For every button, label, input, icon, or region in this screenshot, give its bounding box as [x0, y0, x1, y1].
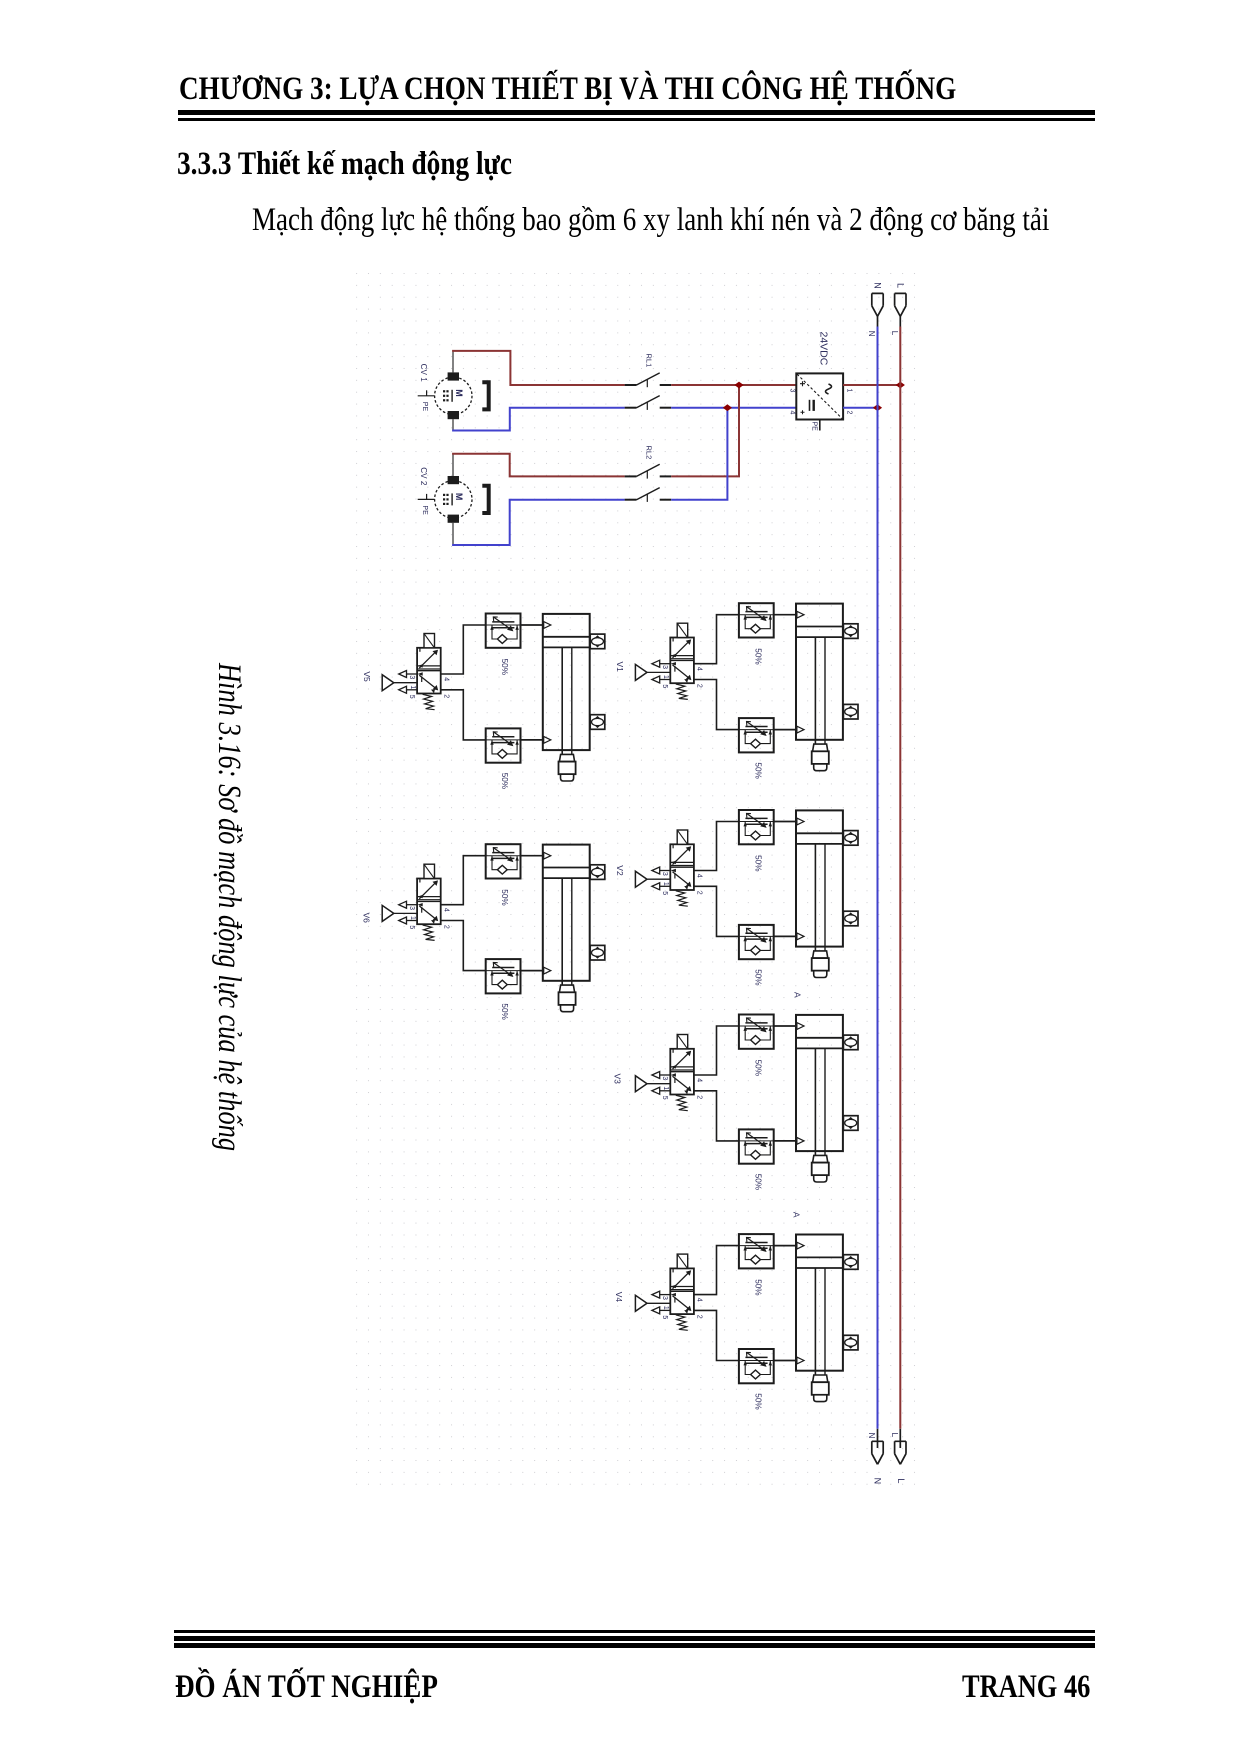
svg-text:PE: PE [811, 422, 818, 432]
svg-text:CV 1: CV 1 [419, 364, 428, 383]
terminal L bottom [895, 1441, 906, 1464]
svg-text:V2: V2 [615, 865, 625, 876]
svg-text:A: A [793, 992, 803, 998]
svg-text:N: N [867, 1433, 876, 1439]
svg-text:A: A [792, 1212, 802, 1218]
power supply PE pin [819, 420, 821, 431]
N rail wire (blue) [877, 316, 879, 326]
pneumatic group V5: 5/2 valve, flow controls, cylinder [382, 614, 605, 790]
motor CV2 PE lead [418, 498, 435, 500]
svg-text:V5: V5 [362, 671, 372, 682]
svg-text:N: N [872, 282, 882, 289]
svg-text:RL1: RL1 [644, 354, 653, 368]
wire motor CV1 - (blue) [452, 419, 454, 430]
svg-text:L: L [895, 283, 905, 288]
pneumatic group V2: 5/2 valve, flow controls, cylinder [635, 810, 858, 986]
svg-text:V1: V1 [615, 662, 625, 673]
footer page number [962, 1669, 1090, 1706]
header rule thin [178, 118, 1095, 121]
power supply AC squiggle [826, 384, 832, 394]
motor CV1 DC dots [443, 390, 445, 392]
wire motor CV2 - (blue) [452, 523, 454, 545]
schematic grid dots [356, 266, 916, 1490]
motor CV2 circle [435, 481, 472, 518]
svg-text:2: 2 [846, 411, 853, 415]
power supply 24VDC box [796, 373, 843, 419]
svg-text:N: N [873, 1478, 883, 1485]
junction node blue RL2/RL1 [723, 404, 732, 411]
wire supply to L rail (maroon) [843, 384, 900, 386]
svg-text:24VDC: 24VDC [818, 332, 830, 366]
svg-text:PE: PE [421, 505, 428, 515]
wire motor CV1 + (maroon) [452, 351, 454, 372]
footer rule thick1 [174, 1636, 1095, 1641]
pneumatic group V4: 5/2 valve, flow controls, cylinder [635, 1234, 858, 1410]
motor CV1 PE lead [418, 395, 435, 397]
footer rule thin [174, 1630, 1095, 1633]
junction node N rail [873, 404, 882, 411]
power supply plus marks [800, 381, 805, 386]
junction node L rail [896, 382, 905, 389]
svg-text:L: L [890, 1433, 899, 1438]
svg-text:4: 4 [789, 411, 796, 415]
footer rule thick2 [174, 1643, 1095, 1648]
L rail wire (maroon) [899, 316, 901, 326]
body paragraph [252, 202, 1049, 239]
wire supply to N rail (blue) [843, 407, 877, 409]
motor CV1 terminals [448, 372, 459, 380]
svg-text:V6: V6 [362, 913, 372, 924]
svg-text:L: L [890, 331, 899, 336]
page header title [179, 71, 956, 108]
terminal N bottom [872, 1441, 883, 1464]
svg-text:L: L [896, 1478, 906, 1483]
relay contact RL1 pole b [625, 407, 637, 409]
svg-text:3: 3 [789, 389, 796, 393]
pneumatic group V3: 5/2 valve, flow controls, cylinder [635, 1015, 858, 1191]
motor CV2 terminals [448, 476, 459, 484]
svg-text:V3: V3 [613, 1074, 623, 1085]
svg-text:V4: V4 [614, 1292, 624, 1303]
figure caption Hinh 3.16 (rotated) [210, 663, 247, 1151]
motor CV2 DC dots [443, 494, 445, 496]
power supply DC bars [809, 400, 811, 411]
motor CV1 bracket [482, 382, 488, 409]
svg-text:1: 1 [846, 389, 853, 393]
pneumatic group V6: 5/2 valve, flow controls, cylinder [382, 844, 605, 1020]
svg-text:M: M [454, 493, 464, 501]
motor CV1 circle [435, 377, 472, 414]
svg-text:CV 2: CV 2 [419, 467, 428, 486]
junction node maroon RL2/RL1 [734, 382, 743, 389]
motor CV2 bracket [482, 486, 488, 513]
terminal L top [895, 293, 906, 316]
pneumatic group V1: 5/2 valve, flow controls, cylinder [635, 603, 858, 779]
terminal N top [872, 293, 883, 316]
svg-text:N: N [867, 331, 876, 337]
relay contact RL1 pole a [625, 384, 637, 386]
section heading 3.3.3 [177, 146, 512, 183]
svg-text:RL2: RL2 [644, 446, 653, 460]
footer left text [175, 1669, 438, 1706]
relay contact RL2 pole b [625, 499, 637, 501]
relay contact RL2 pole a [625, 475, 637, 477]
svg-text:PE: PE [421, 402, 428, 412]
header rule thick [178, 110, 1095, 115]
wire motor CV2 + (maroon) [452, 454, 454, 476]
svg-text:M: M [454, 389, 464, 397]
